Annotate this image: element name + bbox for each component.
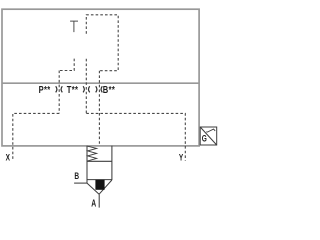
orifice symbol at T xyxy=(83,86,90,92)
valve seat (poppet) triangle xyxy=(87,180,112,194)
svg-text:Y: Y xyxy=(179,152,184,163)
svg-text:X: X xyxy=(6,153,11,164)
svg-text:B**: B** xyxy=(103,84,115,95)
cover plate outline xyxy=(2,9,199,146)
orifice line B wire xyxy=(85,59,87,114)
cartridge valve body xyxy=(87,146,112,183)
Y pilot port wire xyxy=(86,113,185,160)
svg-text:T**: T** xyxy=(67,84,79,95)
orifice line P wire xyxy=(58,71,60,114)
plugged pilot branch wire xyxy=(59,59,74,71)
spring xyxy=(88,146,97,161)
pilot line to spring chamber xyxy=(98,71,100,146)
svg-text:P**: P** xyxy=(39,84,51,95)
pilot passage dashed box xyxy=(86,15,118,71)
svg-text:B: B xyxy=(74,171,79,182)
port B wire xyxy=(74,182,87,184)
plug T symbol xyxy=(70,21,78,32)
poppet black plug xyxy=(95,180,104,190)
position switch G box xyxy=(200,127,217,145)
svg-text:G: G xyxy=(202,133,207,144)
X pilot port wire xyxy=(13,113,59,160)
port A wire xyxy=(98,194,100,207)
orifice symbol at B xyxy=(96,86,103,92)
orifice symbol at P xyxy=(56,86,63,92)
switch actuator icon xyxy=(206,129,215,132)
port face divider line xyxy=(2,82,199,84)
svg-text:A: A xyxy=(91,197,96,209)
